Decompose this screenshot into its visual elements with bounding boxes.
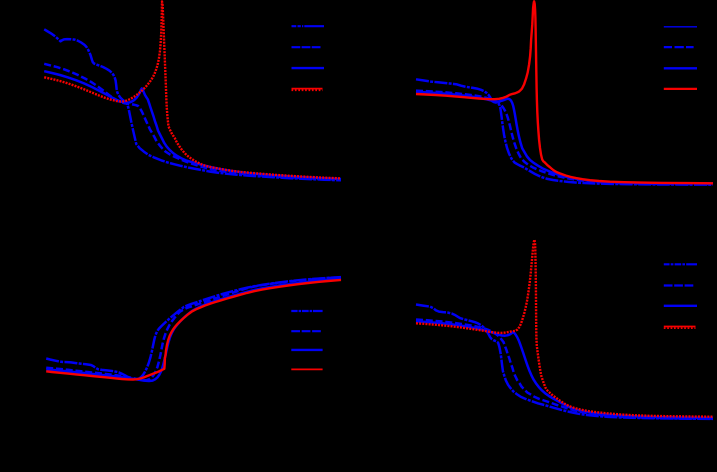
curve TL dotted red with resonance peak [44, 2, 341, 179]
legend TL row2 dashed blue [292, 46, 321, 48]
curve BR dash-dot blue [416, 305, 713, 419]
curve TR solid red with resonance peak [416, 1, 713, 183]
curve BL dashed blue [46, 277, 341, 380]
curve BR dashed blue [416, 320, 713, 419]
legend TL row4 dotted red [292, 88, 323, 90]
legend BL row2 dashed blue [291, 330, 321, 332]
legend BR row3 solid blue [664, 305, 697, 307]
legend BR row4 dotted red [664, 326, 696, 328]
curve BL solid red with step [46, 280, 341, 380]
legend TR row1 thin solid blue [664, 26, 697, 28]
legend TR row2 dashed blue [664, 46, 694, 48]
legend BR row2 dashed blue [664, 284, 694, 286]
curve TR dashed blue [416, 91, 713, 185]
curve TL solid blue [44, 71, 341, 179]
legend BL row1 dash-dot blue [291, 310, 322, 312]
legend BL row3 solid blue [291, 349, 322, 351]
legend TR row4 solid red [664, 88, 697, 90]
curve BR dotted red with resonance peak [416, 240, 713, 417]
legend TL row3 solid blue [292, 67, 325, 69]
legend BL row4 solid red [291, 368, 322, 370]
curve TL dashed blue [44, 64, 341, 180]
curve BR solid blue [416, 321, 713, 418]
legend TR row3 solid blue [664, 67, 697, 69]
curve TL dash-dot blue [44, 29, 341, 180]
legend BR row1 dash-dot blue [664, 263, 697, 265]
curve BL dash-dot blue [46, 277, 341, 379]
curve TR solid blue [416, 92, 713, 183]
curve TR dash-dot blue [416, 79, 713, 184]
curve BL solid blue [46, 279, 341, 381]
legend TL row1 dash-dot blue [292, 25, 325, 27]
